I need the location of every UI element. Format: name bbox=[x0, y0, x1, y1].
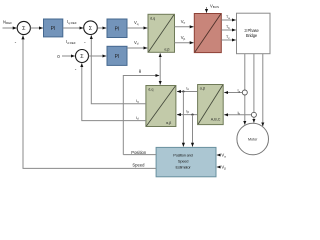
wire phase A bridge to motor bbox=[244, 54, 246, 125]
wire PI1 to summer S2 with Iq_REF label bbox=[63, 19, 83, 28]
svg-text:Σ: Σ bbox=[89, 26, 93, 32]
summing junction S2 bbox=[84, 21, 98, 35]
junction on Ibeta bbox=[191, 114, 193, 116]
wire PI2 to dq/alphabeta with Vq label bbox=[127, 20, 147, 28]
wire Id feedback from Park to S3 bbox=[82, 63, 146, 120]
wire Ibeta from Clarke to Park bbox=[177, 109, 197, 114]
summing junction S1 bbox=[17, 21, 30, 34]
svg-text:Position: Position bbox=[131, 150, 147, 155]
wire Ta from SVM to bridge bbox=[221, 15, 236, 20]
svg-text:Iq REF: Iq REF bbox=[67, 19, 77, 25]
svg-text:Iβ: Iβ bbox=[186, 109, 189, 114]
wire Ibeta down to estimator bbox=[192, 115, 194, 147]
PI controller PI3 (Id) bbox=[107, 46, 127, 65]
wire S3 to PI3 bbox=[89, 55, 107, 57]
svg-text:Vα: Vα bbox=[181, 19, 186, 25]
wire V_BUS into SVM bbox=[206, 7, 208, 13]
svg-text:Id REF: Id REF bbox=[66, 39, 76, 45]
svg-text:α,β: α,β bbox=[166, 121, 171, 125]
wire S2 to PI2 bbox=[98, 27, 107, 29]
svg-text:NREF: NREF bbox=[3, 19, 12, 25]
svg-text:Vβ: Vβ bbox=[221, 165, 226, 171]
svg-text:Vα: Vα bbox=[221, 153, 226, 159]
wire Valpha from inverse Park to SVM bbox=[175, 19, 194, 27]
wire phase C bridge to motor bbox=[262, 54, 264, 127]
wire theta from position riser to transforms bbox=[123, 69, 159, 155]
wire Tc from SVM to bridge bbox=[221, 35, 236, 40]
svg-text:Speed: Speed bbox=[178, 158, 188, 163]
svg-text:Vq: Vq bbox=[134, 20, 139, 26]
svg-text:Estimator: Estimator bbox=[176, 164, 192, 169]
svg-text:Position and: Position and bbox=[173, 152, 192, 157]
PI controller PI2 (Iq) bbox=[107, 19, 127, 38]
svg-text:Speed: Speed bbox=[132, 163, 145, 168]
motor bbox=[237, 123, 269, 155]
transform block Clarke abc to alpha-beta bbox=[198, 85, 224, 125]
svg-text:PI: PI bbox=[115, 54, 120, 60]
svg-text:d,q: d,q bbox=[148, 87, 153, 91]
wire Vbeta input to estimator bbox=[217, 165, 226, 171]
svg-text:0: 0 bbox=[57, 54, 60, 59]
svg-text:Id: Id bbox=[136, 116, 139, 121]
svg-text:Motor: Motor bbox=[248, 138, 258, 142]
svg-text:Iα: Iα bbox=[186, 86, 189, 91]
current sensor on phase B bbox=[251, 112, 256, 117]
svg-text:Bridge: Bridge bbox=[246, 33, 258, 38]
wire Tb from SVM to bridge bbox=[221, 25, 236, 30]
wire theta down into Park bbox=[159, 76, 161, 85]
svg-text:Vβ: Vβ bbox=[181, 35, 186, 41]
svg-text:Σ: Σ bbox=[80, 54, 84, 60]
svg-text:Tb: Tb bbox=[226, 25, 230, 30]
svg-text:Ia: Ia bbox=[238, 89, 241, 94]
wire 0 into summer S3 bbox=[62, 55, 75, 57]
transform block Park alpha-beta to dq bbox=[146, 86, 176, 127]
current sensor on phase A bbox=[242, 90, 247, 95]
3-phase bridge block bbox=[237, 13, 271, 54]
wire Ialpha from Clarke to Park bbox=[177, 86, 197, 91]
svg-text:Σ: Σ bbox=[22, 26, 26, 32]
svg-text:Ib: Ib bbox=[238, 111, 241, 116]
wire phase B bridge to motor bbox=[253, 54, 255, 123]
wire Ib from sensor to Clarke bbox=[224, 111, 252, 116]
wire S1 to PI1 bbox=[30, 27, 43, 29]
wire theta up into inverse Park bbox=[159, 53, 161, 75]
wire PI3 to dq/alphabeta with Vd label bbox=[127, 40, 147, 48]
svg-text:Vd: Vd bbox=[134, 40, 139, 46]
wire Ialpha down to estimator bbox=[182, 92, 184, 147]
transform block dq to alpha-beta (inverse Park) bbox=[148, 14, 175, 52]
wire Iq feedback from Park to S2 bbox=[91, 35, 146, 103]
junction on Ialpha bbox=[182, 90, 184, 92]
svg-text:d,q: d,q bbox=[150, 16, 155, 20]
wire Position output from estimator bbox=[123, 150, 156, 155]
wire N_REF input into summer S1 bbox=[3, 27, 17, 29]
position and speed estimator block bbox=[156, 147, 216, 176]
summing junction S3 bbox=[76, 50, 89, 63]
svg-text:α,β: α,β bbox=[164, 47, 169, 51]
svg-text:VBUS: VBUS bbox=[210, 3, 219, 9]
svg-text:Ta: Ta bbox=[226, 15, 230, 20]
svg-text:PI: PI bbox=[51, 26, 56, 32]
svg-text:α,β: α,β bbox=[200, 86, 205, 90]
wire Vbeta from inverse Park to SVM bbox=[175, 35, 194, 43]
SVM block (space vector modulation) bbox=[194, 14, 221, 53]
svg-text:Tc: Tc bbox=[226, 35, 230, 40]
wire Ia from sensor to Clarke bbox=[224, 89, 243, 94]
wire Valpha input to estimator bbox=[217, 153, 226, 159]
PI controller PI1 (speed) bbox=[44, 19, 63, 37]
svg-text:A,B,C: A,B,C bbox=[211, 118, 221, 122]
svg-text:Iq: Iq bbox=[136, 99, 139, 104]
svg-text:PI: PI bbox=[115, 26, 120, 32]
wire Speed feedback from estimator to S1 bbox=[23, 36, 156, 169]
